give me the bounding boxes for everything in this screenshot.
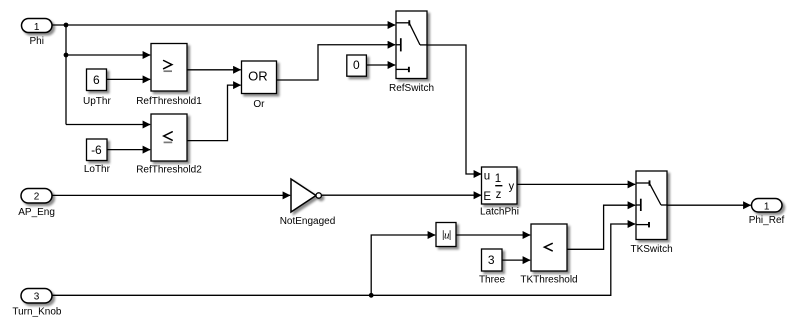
svg-text:u: u bbox=[484, 170, 490, 182]
svg-text:Or: Or bbox=[253, 99, 265, 110]
svg-text:OR: OR bbox=[248, 69, 268, 84]
svg-text:-6: -6 bbox=[91, 143, 102, 157]
svg-text:1: 1 bbox=[495, 173, 501, 185]
svg-text:1: 1 bbox=[764, 201, 770, 212]
svg-text:2: 2 bbox=[34, 191, 40, 202]
svg-text:Phi: Phi bbox=[29, 36, 43, 47]
svg-text:6: 6 bbox=[93, 73, 100, 87]
svg-text:LoThr: LoThr bbox=[84, 164, 111, 175]
svg-text:RefThreshold1: RefThreshold1 bbox=[136, 96, 202, 107]
svg-text:LatchPhi: LatchPhi bbox=[480, 207, 519, 218]
svg-text:Turn_Knob: Turn_Knob bbox=[12, 306, 62, 317]
svg-text:y: y bbox=[509, 181, 515, 193]
svg-text:1: 1 bbox=[34, 22, 40, 33]
svg-text:AP_Eng: AP_Eng bbox=[18, 207, 55, 218]
svg-text:TKSwitch: TKSwitch bbox=[630, 244, 672, 255]
svg-text:E: E bbox=[483, 191, 491, 203]
svg-text:z: z bbox=[496, 189, 502, 201]
svg-text:UpThr: UpThr bbox=[83, 96, 111, 107]
svg-text:Phi_Ref: Phi_Ref bbox=[749, 215, 785, 226]
svg-text:u: u bbox=[444, 230, 450, 242]
svg-text:RefSwitch: RefSwitch bbox=[389, 83, 434, 94]
svg-text:NotEngaged: NotEngaged bbox=[280, 216, 336, 227]
svg-text:0: 0 bbox=[353, 58, 360, 72]
svg-text:Three: Three bbox=[479, 274, 506, 285]
svg-text:TKThreshold: TKThreshold bbox=[520, 274, 577, 285]
svg-text:RefThreshold2: RefThreshold2 bbox=[136, 165, 202, 176]
svg-text:3: 3 bbox=[34, 291, 40, 302]
svg-text:3: 3 bbox=[488, 253, 495, 267]
